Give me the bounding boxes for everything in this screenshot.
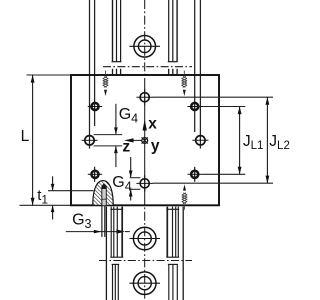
rail lower segment 2 ticks [112,263,178,265]
svg-text:y: y [151,138,160,155]
rail top segment left lines [113,0,121,61]
dimension G4 lower [129,157,133,201]
rail bolt hole bottom 1 [129,227,160,250]
thread symbol top-left [103,71,108,94]
rail top segment right lines [169,0,177,61]
dimension L extension lines [20,75,71,205]
carriage center hole bottom [136,175,153,192]
rail joint centerline bottom [99,260,192,262]
carriage corner hole top-right [188,103,203,110]
carriage corner hole top-left [88,103,102,110]
rail lower segment 1 ticks [110,209,179,257]
rail top end ticks [112,61,178,63]
carriage corner hole bottom-right [188,171,203,178]
x axis arrow [143,120,147,131]
rail lower segment 2 right lines [169,264,178,300]
rail bolt hole top [129,36,160,58]
carriage center hole top [136,89,153,106]
dimension JL1 extension lines [203,107,246,175]
carriage body [71,75,219,205]
dimension t1 [48,190,94,192]
grease nipple dome section [93,181,113,206]
dimension G3 leader [66,231,130,233]
rail bolt hole bottom 2 [129,272,160,295]
thread symbol top-right [182,71,187,94]
thread symbol bottom-right [182,187,187,210]
dimension JL1 [239,107,241,175]
rail joint centerline top [103,66,192,68]
svg-text:L: L [21,128,30,145]
dimension JL2 [266,97,268,183]
coordinate origin symbol [142,137,148,143]
dimension JL2 extension lines [153,97,273,183]
lube duct below carriage [102,206,105,237]
lube duct from left mid hole [94,135,123,146]
carriage mid hole left [82,136,98,145]
carriage corner hole bottom-left [88,171,102,178]
vertical centerline [144,0,146,86]
rail lower segment 1 left lines [106,207,122,300]
dimension L [32,75,34,205]
hole-column extension lines above/through carriage [90,0,201,182]
rail stubs below top joint [113,69,178,75]
dimension G4 upper [114,104,118,167]
carriage mid hole right [192,136,208,145]
svg-text:x: x [148,115,157,132]
lube duct at bottom center hole [130,178,141,190]
rail lower segment 1 right lines [167,207,183,300]
rail lower segment 2 left lines [113,264,119,300]
svg-text:z: z [122,139,130,156]
z axis arrow [124,138,142,142]
